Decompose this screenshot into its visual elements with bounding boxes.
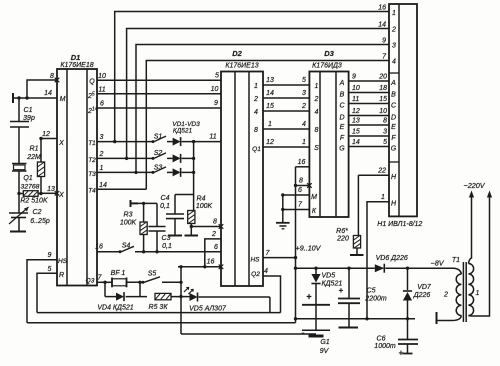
svg-text:Т2: Т2 (88, 157, 96, 164)
svg-text:100K: 100K (196, 203, 213, 210)
svg-text:6: 6 (214, 244, 218, 251)
svg-text:S5: S5 (148, 271, 157, 278)
svg-text:9: 9 (214, 100, 218, 107)
svg-text:20: 20 (378, 74, 387, 81)
svg-text:C1: C1 (24, 107, 33, 114)
svg-text:2: 2 (301, 103, 306, 110)
svg-text:КД521: КД521 (173, 128, 193, 135)
svg-text:К176ИД3: К176ИД3 (312, 63, 342, 70)
svg-text:BF 1: BF 1 (111, 270, 126, 277)
svg-text:4: 4 (302, 121, 306, 128)
svg-text:39p: 39p (23, 115, 35, 122)
svg-text:S: S (314, 145, 319, 152)
svg-text:Q: Q (89, 79, 95, 86)
svg-text:5: 5 (215, 73, 219, 80)
svg-text:R3: R3 (124, 212, 133, 219)
svg-text:4: 4 (254, 109, 258, 116)
svg-text:А: А (339, 80, 345, 87)
svg-text:1: 1 (302, 139, 306, 146)
svg-text:3: 3 (392, 43, 396, 50)
svg-text:F: F (340, 135, 345, 142)
svg-text:8: 8 (315, 127, 319, 134)
svg-text:1: 1 (392, 10, 396, 17)
svg-text:+: + (306, 292, 311, 302)
svg-text:22: 22 (377, 168, 386, 175)
svg-text:D3: D3 (324, 49, 334, 58)
svg-text:S1: S1 (154, 134, 163, 141)
svg-text:Q2: Q2 (251, 271, 260, 278)
svg-text:C4: C4 (161, 195, 170, 202)
svg-text:10: 10 (211, 86, 219, 93)
svg-text:А: А (390, 80, 396, 87)
svg-text:9V: 9V (320, 348, 330, 355)
svg-text:14: 14 (378, 22, 386, 29)
svg-text:2: 2 (391, 27, 396, 34)
svg-text:10: 10 (352, 85, 360, 92)
svg-text:B: B (391, 92, 396, 99)
svg-text:16: 16 (378, 5, 386, 12)
svg-text:22M: 22M (26, 154, 41, 161)
svg-text:10: 10 (98, 73, 106, 80)
svg-text:Н1 ИВЛ1-8/12: Н1 ИВЛ1-8/12 (377, 221, 422, 228)
svg-text:VD5: VD5 (322, 273, 336, 280)
svg-text:R5 3К: R5 3К (149, 304, 169, 311)
svg-text:13: 13 (266, 77, 274, 84)
svg-text:G: G (339, 146, 345, 153)
svg-text:Q3: Q3 (86, 278, 95, 285)
svg-text:14: 14 (44, 90, 52, 97)
svg-text:Q1: Q1 (252, 146, 261, 153)
svg-text:8: 8 (213, 219, 217, 226)
svg-text:R1: R1 (30, 146, 39, 153)
svg-text:1: 1 (100, 165, 104, 172)
svg-text:−8V: −8V (431, 259, 445, 268)
svg-text:2: 2 (443, 292, 448, 299)
svg-text:М: М (311, 194, 317, 201)
svg-text:8: 8 (254, 127, 258, 134)
svg-text:R: R (59, 272, 64, 279)
svg-text:1: 1 (254, 83, 258, 90)
svg-text:32768: 32768 (21, 184, 40, 191)
svg-text:R6*: R6* (336, 228, 348, 235)
svg-text:D: D (391, 115, 396, 122)
svg-text:14: 14 (266, 90, 274, 97)
svg-text:9: 9 (382, 38, 386, 45)
svg-text:2: 2 (211, 231, 216, 238)
svg-text:G: G (391, 146, 397, 153)
svg-text:15: 15 (352, 129, 360, 136)
svg-text:G1: G1 (320, 339, 329, 346)
svg-text:15: 15 (379, 96, 387, 103)
svg-text:3: 3 (100, 134, 104, 141)
svg-text:VD6 Д226: VD6 Д226 (376, 255, 408, 262)
svg-text:R4: R4 (197, 196, 206, 203)
svg-text:11: 11 (209, 134, 216, 141)
svg-text:-: - (302, 328, 305, 338)
svg-text:D2: D2 (232, 49, 242, 58)
svg-text:9: 9 (352, 74, 356, 81)
svg-text:D: D (339, 115, 344, 122)
svg-text:2: 2 (253, 96, 258, 103)
svg-text:5: 5 (48, 266, 52, 273)
svg-text:12: 12 (42, 131, 50, 138)
svg-text:C6: C6 (377, 336, 386, 343)
svg-text:3: 3 (302, 90, 306, 97)
svg-text:S2: S2 (154, 150, 163, 157)
svg-text:0,1: 0,1 (160, 203, 170, 210)
svg-text:14: 14 (99, 182, 107, 189)
svg-text:9: 9 (48, 252, 52, 259)
svg-text:5: 5 (302, 77, 306, 84)
svg-text:C3: C3 (162, 235, 171, 242)
svg-text:13: 13 (352, 118, 360, 125)
svg-text:1: 1 (315, 83, 319, 90)
svg-text:S4: S4 (122, 243, 131, 250)
svg-text:S3: S3 (154, 165, 163, 172)
svg-text:X: X (58, 140, 64, 147)
svg-text:Д226: Д226 (413, 292, 431, 299)
svg-text:F: F (391, 135, 396, 142)
svg-text:12: 12 (352, 108, 360, 115)
svg-text:+: + (339, 286, 344, 295)
svg-text:HS: HS (58, 258, 68, 265)
svg-text:К176ИЕ13: К176ИЕ13 (225, 63, 258, 70)
svg-text:2: 2 (314, 96, 319, 103)
svg-text:12: 12 (266, 139, 274, 146)
svg-text:6..25p: 6..25p (30, 218, 50, 225)
svg-text:3: 3 (383, 129, 387, 136)
svg-text:+: + (399, 349, 404, 358)
svg-text:E: E (340, 124, 345, 131)
svg-text:8: 8 (299, 178, 303, 185)
svg-text:8: 8 (383, 118, 387, 125)
svg-text:16: 16 (207, 259, 215, 266)
svg-text:~220V: ~220V (464, 181, 486, 190)
svg-text:5: 5 (383, 139, 387, 146)
svg-text:14: 14 (352, 139, 360, 146)
svg-text:4: 4 (264, 268, 268, 275)
svg-text:15: 15 (266, 103, 274, 110)
svg-text:R2 510K: R2 510K (20, 198, 48, 205)
svg-text:1: 1 (381, 194, 385, 201)
svg-text:1: 1 (268, 121, 272, 128)
svg-text:2200m: 2200m (364, 296, 387, 303)
svg-text:0,1: 0,1 (162, 243, 172, 250)
svg-text:13: 13 (47, 186, 55, 193)
svg-text:X: X (58, 192, 64, 199)
svg-text:C2: C2 (33, 209, 42, 216)
svg-text:VD7: VD7 (417, 284, 432, 291)
svg-text:4: 4 (392, 59, 396, 66)
svg-text:М: М (60, 96, 66, 103)
svg-text:E: E (391, 124, 396, 131)
svg-text:100K: 100K (120, 220, 137, 227)
svg-text:10: 10 (379, 108, 387, 115)
svg-text:B: B (340, 92, 345, 99)
svg-text:+9..10V: +9..10V (296, 244, 322, 253)
svg-text:6: 6 (100, 101, 104, 108)
svg-text:Т1: Т1 (88, 140, 96, 147)
svg-text:Т3: Т3 (88, 171, 96, 178)
svg-text:220: 220 (336, 236, 349, 243)
svg-text:6: 6 (298, 187, 302, 194)
svg-text:Т4: Т4 (88, 188, 96, 195)
svg-text:4: 4 (315, 109, 319, 116)
svg-text:11: 11 (98, 87, 105, 94)
svg-text:VD5 АЛ307: VD5 АЛ307 (189, 306, 227, 313)
svg-text:Q1: Q1 (23, 175, 32, 182)
svg-text:T1: T1 (452, 257, 460, 264)
svg-text:C5: C5 (367, 288, 376, 295)
svg-text:VD4 КД521: VD4 КД521 (97, 305, 133, 312)
svg-text:К176ИЕ18: К176ИЕ18 (60, 62, 93, 69)
svg-text:16: 16 (298, 159, 306, 166)
svg-text:11: 11 (352, 96, 359, 103)
svg-text:18: 18 (379, 85, 387, 92)
svg-text:2: 2 (99, 151, 104, 158)
svg-text:D1: D1 (71, 53, 81, 62)
svg-text:8: 8 (50, 73, 54, 80)
svg-text:1000m: 1000m (374, 343, 396, 350)
svg-text:HS: HS (250, 257, 260, 264)
svg-text:16: 16 (95, 244, 103, 251)
svg-text:1: 1 (476, 290, 480, 297)
